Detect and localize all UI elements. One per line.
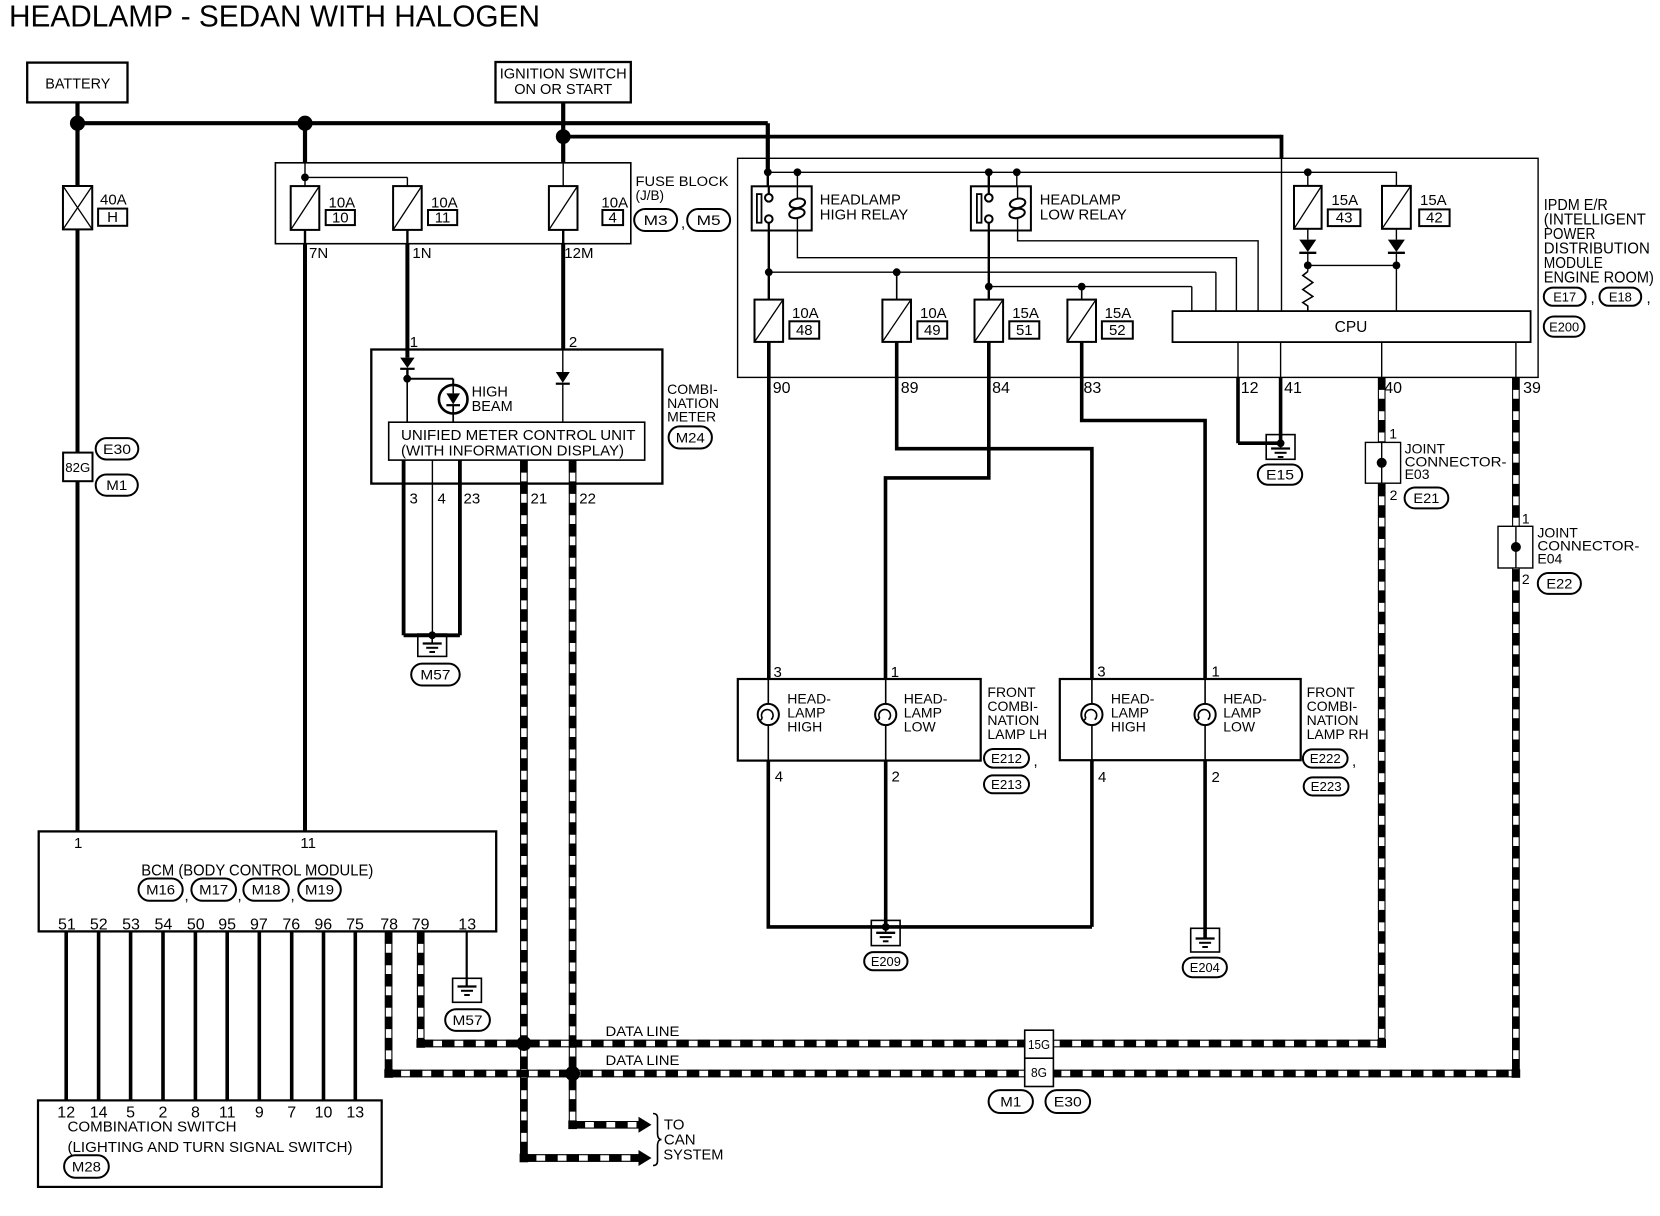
svg-text:,: , — [1647, 290, 1651, 307]
svg-text:8G: 8G — [1031, 1065, 1047, 1080]
svg-text:M17: M17 — [199, 882, 228, 898]
svg-text:M24: M24 — [676, 429, 705, 445]
svg-text:1: 1 — [1389, 426, 1397, 442]
svg-text:23: 23 — [464, 491, 481, 508]
svg-text:95: 95 — [218, 917, 236, 934]
svg-text:HIGH RELAY: HIGH RELAY — [820, 207, 909, 224]
svg-text:E21: E21 — [1413, 490, 1439, 506]
svg-text:42: 42 — [1426, 210, 1443, 227]
svg-text:COMBINATION SWITCH: COMBINATION SWITCH — [68, 1119, 237, 1136]
svg-text:50: 50 — [187, 917, 205, 934]
svg-text:M3: M3 — [644, 212, 668, 228]
svg-text:E212: E212 — [991, 751, 1022, 766]
svg-text:,: , — [185, 888, 189, 905]
svg-text:,: , — [1034, 753, 1038, 770]
svg-text:M16: M16 — [146, 882, 175, 898]
svg-text:1: 1 — [410, 334, 418, 351]
svg-text:ON OR START: ON OR START — [514, 81, 612, 98]
svg-text:(LIGHTING AND TURN SIGNAL SWIT: (LIGHTING AND TURN SIGNAL SWITCH) — [68, 1139, 353, 1156]
svg-text:(J/B): (J/B) — [636, 188, 665, 203]
svg-text:LAMP RH: LAMP RH — [1307, 726, 1369, 742]
svg-text:E209: E209 — [871, 954, 901, 969]
svg-text:41: 41 — [1284, 380, 1302, 397]
svg-text:M18: M18 — [252, 882, 281, 898]
svg-text:12: 12 — [1241, 380, 1259, 397]
svg-text:15A: 15A — [1105, 305, 1132, 322]
svg-text:DATA LINE: DATA LINE — [606, 1052, 680, 1068]
svg-text:LOW: LOW — [1223, 719, 1256, 735]
svg-text:90: 90 — [773, 380, 791, 397]
svg-text:15G: 15G — [1028, 1037, 1050, 1052]
svg-text:BCM (BODY CONTROL MODULE): BCM (BODY CONTROL MODULE) — [141, 863, 373, 880]
svg-text:52: 52 — [90, 917, 108, 934]
svg-text:(WITH INFORMATION DISPLAY): (WITH INFORMATION DISPLAY) — [401, 443, 624, 460]
svg-text:15A: 15A — [1331, 192, 1358, 209]
svg-text:LOW: LOW — [904, 719, 937, 735]
svg-text:1: 1 — [1212, 664, 1220, 681]
svg-text:75: 75 — [346, 917, 364, 934]
svg-text:9: 9 — [255, 1105, 264, 1122]
svg-text:M5: M5 — [697, 212, 721, 228]
svg-text:,: , — [1591, 290, 1595, 307]
svg-text:,: , — [681, 215, 685, 232]
svg-text:E15: E15 — [1266, 467, 1294, 483]
svg-text:M57: M57 — [453, 1012, 483, 1028]
svg-text:SYSTEM: SYSTEM — [663, 1147, 723, 1164]
svg-text:84: 84 — [992, 380, 1010, 397]
svg-text:7: 7 — [287, 1105, 296, 1122]
svg-text:49: 49 — [924, 322, 941, 339]
svg-text:39: 39 — [1523, 380, 1541, 397]
svg-text:15A: 15A — [1012, 305, 1039, 322]
svg-text:51: 51 — [1016, 322, 1033, 339]
svg-text:E18: E18 — [1609, 289, 1632, 304]
svg-text:48: 48 — [796, 322, 813, 339]
svg-text:12M: 12M — [564, 245, 593, 262]
svg-text:E30: E30 — [103, 441, 131, 457]
svg-text:LOW RELAY: LOW RELAY — [1040, 207, 1127, 224]
svg-text:13: 13 — [346, 1105, 364, 1122]
svg-text:,: , — [1352, 753, 1356, 770]
svg-text:HIGH: HIGH — [1111, 719, 1146, 735]
svg-text:E213: E213 — [991, 777, 1022, 792]
svg-text:21: 21 — [531, 491, 548, 508]
svg-text:E30: E30 — [1054, 1094, 1082, 1110]
svg-text:E04: E04 — [1537, 550, 1562, 566]
svg-text:54: 54 — [155, 917, 173, 934]
svg-text:LAMP LH: LAMP LH — [987, 726, 1047, 742]
svg-text:BEAM: BEAM — [472, 399, 513, 415]
svg-text:1: 1 — [74, 835, 82, 852]
svg-text:76: 76 — [282, 917, 300, 934]
svg-text:3: 3 — [1097, 664, 1105, 681]
svg-text:15A: 15A — [1420, 192, 1447, 209]
svg-text:10A: 10A — [920, 305, 947, 322]
svg-text:78: 78 — [380, 917, 398, 934]
svg-text:,: , — [291, 888, 295, 905]
svg-text:M28: M28 — [72, 1159, 101, 1175]
svg-text:40: 40 — [1384, 380, 1402, 397]
svg-text:1: 1 — [1522, 511, 1530, 527]
svg-text:H: H — [107, 209, 118, 226]
svg-text:22: 22 — [579, 491, 596, 508]
svg-text:M1: M1 — [1000, 1094, 1021, 1110]
svg-text:79: 79 — [412, 917, 430, 934]
svg-text:HIGH: HIGH — [787, 719, 822, 735]
svg-text:M1: M1 — [106, 477, 127, 493]
svg-text:2: 2 — [1390, 487, 1398, 503]
svg-text:4: 4 — [609, 210, 617, 227]
svg-text:4: 4 — [1098, 769, 1106, 786]
svg-text:E17: E17 — [1553, 289, 1576, 304]
svg-text:1: 1 — [891, 664, 899, 681]
svg-text:HEADLAMP - SEDAN WITH HALOGEN: HEADLAMP - SEDAN WITH HALOGEN — [9, 0, 540, 34]
svg-text:M57: M57 — [420, 667, 450, 683]
svg-text:BATTERY: BATTERY — [45, 76, 110, 93]
svg-text:,: , — [238, 888, 242, 905]
svg-text:13: 13 — [458, 917, 476, 934]
svg-text:43: 43 — [1336, 210, 1353, 227]
svg-text:10: 10 — [332, 210, 349, 227]
svg-text:FUSE BLOCK: FUSE BLOCK — [636, 174, 729, 189]
svg-text:89: 89 — [901, 380, 919, 397]
svg-text:1N: 1N — [412, 245, 431, 262]
svg-text:83: 83 — [1084, 380, 1102, 397]
svg-text:UNIFIED METER CONTROL UNIT: UNIFIED METER CONTROL UNIT — [401, 427, 636, 444]
svg-text:E222: E222 — [1310, 751, 1341, 766]
svg-text:40A: 40A — [100, 192, 127, 209]
svg-text:4: 4 — [438, 491, 446, 508]
svg-text:82G: 82G — [65, 461, 90, 475]
svg-text:IGNITION SWITCH: IGNITION SWITCH — [500, 66, 627, 83]
svg-text:2: 2 — [1212, 769, 1220, 786]
svg-text:2: 2 — [892, 769, 900, 786]
svg-text:96: 96 — [314, 917, 332, 934]
svg-text:10A: 10A — [792, 305, 819, 322]
svg-text:ENGINE ROOM): ENGINE ROOM) — [1544, 270, 1654, 287]
svg-text:52: 52 — [1109, 322, 1126, 339]
svg-text:METER: METER — [667, 409, 716, 425]
svg-text:3: 3 — [410, 491, 418, 508]
svg-text:97: 97 — [250, 917, 268, 934]
svg-text:51: 51 — [58, 917, 76, 934]
svg-text:2: 2 — [1522, 571, 1530, 587]
svg-text:7N: 7N — [309, 245, 328, 262]
svg-text:11: 11 — [435, 210, 451, 227]
svg-text:3: 3 — [774, 664, 782, 681]
svg-text:4: 4 — [775, 769, 783, 786]
svg-text:E223: E223 — [1311, 779, 1342, 794]
svg-text:DATA LINE: DATA LINE — [606, 1023, 680, 1039]
svg-text:M19: M19 — [305, 882, 334, 898]
svg-text:CPU: CPU — [1335, 319, 1368, 336]
svg-text:11: 11 — [300, 835, 316, 852]
svg-text:10: 10 — [315, 1105, 333, 1122]
svg-text:53: 53 — [122, 917, 140, 934]
svg-text:E200: E200 — [1549, 319, 1579, 334]
svg-text:E204: E204 — [1190, 960, 1220, 975]
svg-text:E03: E03 — [1405, 466, 1430, 482]
svg-text:2: 2 — [569, 334, 577, 351]
svg-text:E22: E22 — [1546, 575, 1572, 591]
